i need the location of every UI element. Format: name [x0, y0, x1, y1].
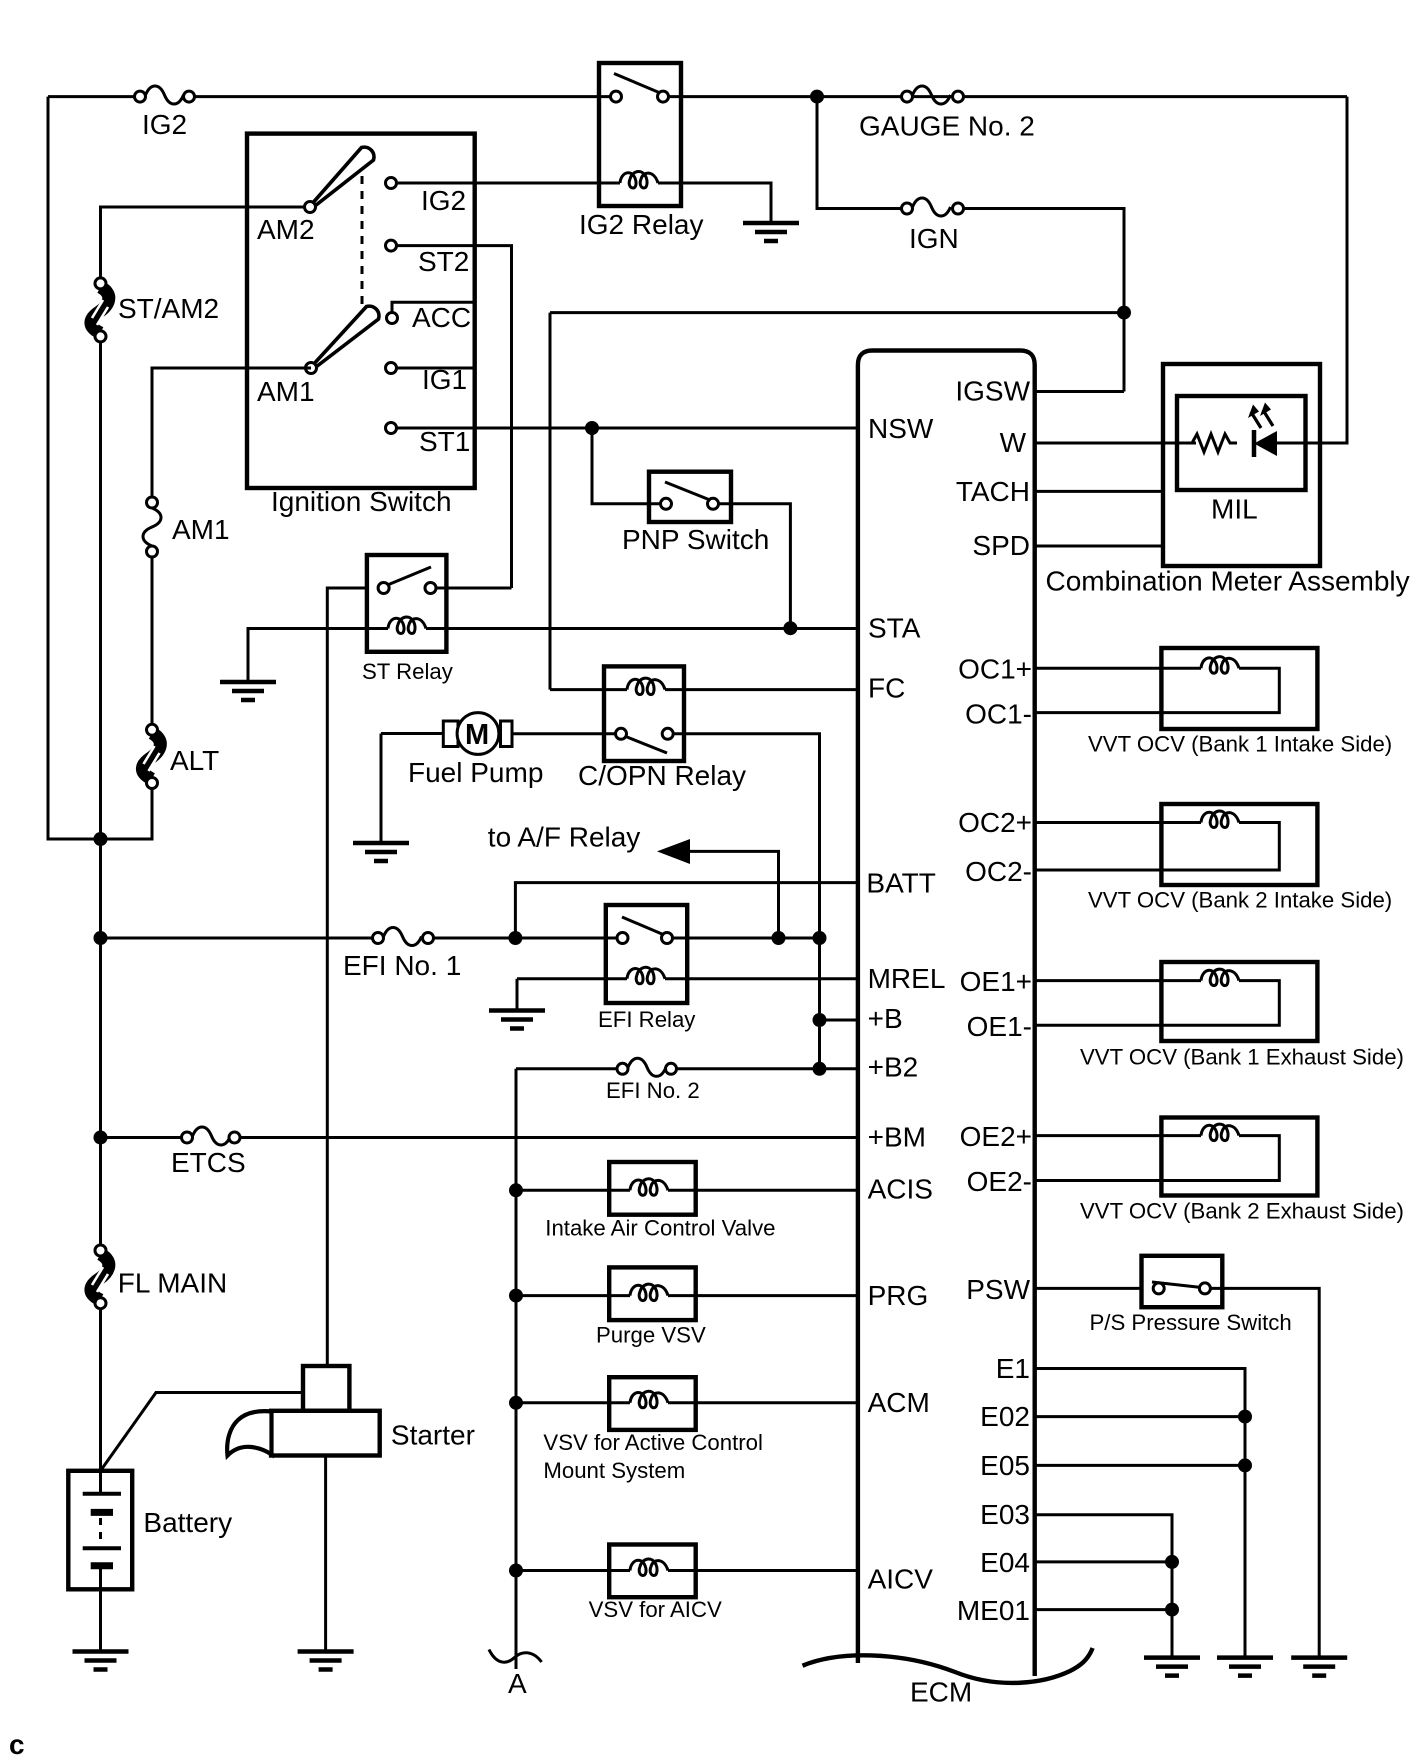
node junction EFI left [94, 931, 108, 945]
wire P/S switch to ground [1210, 1288, 1319, 1657]
fusible link ALT [142, 724, 219, 788]
svg-text:+B: +B [868, 1003, 903, 1034]
svg-text:VSV for AICV: VSV for AICV [589, 1597, 722, 1622]
node junction AICV [509, 1564, 523, 1578]
svg-text:IGSW: IGSW [955, 376, 1030, 407]
node junction ACIS [509, 1183, 523, 1197]
pin PSW [966, 1274, 1141, 1305]
switch PNP contacts [661, 498, 719, 509]
fuse GAUGE No. 2 [859, 86, 1035, 142]
motor fuel pump [381, 713, 543, 788]
relay C/OPN box [604, 666, 684, 761]
valve VSV active control mount [516, 1377, 858, 1483]
node junction +B [813, 1013, 827, 1027]
fuse IGN [902, 198, 964, 254]
label ST Relay [362, 659, 454, 684]
switch PNP blade [665, 482, 715, 502]
switch PNP box [649, 472, 731, 522]
svg-text:ST/AM2: ST/AM2 [118, 293, 219, 324]
node junction gauge branch [810, 90, 824, 104]
node A break symbol [489, 1650, 542, 1700]
pin MREL [868, 963, 946, 994]
label Ignition Switch [271, 486, 452, 517]
svg-text:VVT OCV (Bank 2 Intake Side): VVT OCV (Bank 2 Intake Side) [1088, 887, 1392, 912]
svg-text:Starter: Starter [391, 1419, 475, 1450]
combination meter assembly box [1046, 364, 1410, 597]
valve purge VSV [516, 1267, 858, 1347]
wire fuel pump to ground [380, 734, 383, 844]
svg-text:E05: E05 [980, 1450, 1030, 1481]
relay EFI coil on MREL wire [517, 967, 858, 984]
wire BATT to ECM [515, 883, 858, 938]
svg-text:Combination Meter Assembly: Combination Meter Assembly [1046, 566, 1410, 597]
svg-text:FL MAIN: FL MAIN [118, 1268, 227, 1299]
svg-text:ALT: ALT [170, 745, 219, 776]
svg-text:ST1: ST1 [419, 426, 470, 457]
valve intake air control [516, 1162, 858, 1240]
fuse IG2 [135, 86, 195, 140]
svg-text:OE1-: OE1- [967, 1011, 1032, 1042]
svg-text:AICV: AICV [868, 1564, 934, 1595]
wire AM2 to left vertical [101, 207, 311, 283]
node junction E02 [1238, 1410, 1252, 1424]
relay IG2 switch blade [614, 74, 665, 96]
resistor MIL [1163, 434, 1237, 452]
node junction +B2 [813, 1062, 827, 1076]
pin TACH [956, 476, 1163, 507]
pin STA [868, 613, 921, 644]
VVT OCV bank1 exhaust box [1080, 962, 1404, 1069]
pin E1 [996, 1353, 1245, 1658]
battery [68, 1471, 232, 1590]
ground ST relay [220, 682, 276, 700]
label BATT [866, 868, 935, 899]
wire ST1 junction to PNP switch [592, 428, 660, 504]
svg-text:P/S Pressure Switch: P/S Pressure Switch [1090, 1310, 1292, 1335]
node junction E04 [1165, 1555, 1179, 1569]
svg-text:Intake Air Control Valve: Intake Air Control Valve [545, 1215, 775, 1240]
label C/OPN Relay [578, 760, 746, 791]
node junction +B branch top [813, 931, 827, 945]
svg-text:ACIS: ACIS [868, 1173, 933, 1204]
svg-text:EFI No. 1: EFI No. 1 [343, 950, 461, 981]
wire ALT to junction [101, 788, 153, 839]
svg-text:c: c [9, 1729, 25, 1760]
wire +B2 horizontal [516, 1067, 858, 1070]
svg-text:EFI Relay: EFI Relay [598, 1007, 696, 1032]
pin OC1+ [958, 654, 1161, 685]
wire left mid vertical [99, 342, 102, 1250]
svg-text:Mount System: Mount System [543, 1458, 685, 1483]
svg-text:E1: E1 [996, 1353, 1030, 1384]
wire battery to starter [101, 1393, 304, 1471]
wire ST relay coil to ground [248, 629, 367, 683]
arrowhead A/F [657, 839, 690, 864]
pin AICV [868, 1564, 934, 1595]
ground E1 group [1217, 1658, 1273, 1676]
node junction PRG [509, 1289, 523, 1303]
wire STA to ECM [446, 627, 858, 630]
svg-text:STA: STA [868, 613, 921, 644]
node junction left battery feed [94, 832, 108, 846]
svg-text:PNP Switch: PNP Switch [622, 524, 769, 555]
svg-text:ACC: ACC [412, 302, 471, 333]
wire VSV feed vertical [515, 1069, 518, 1669]
wire FC feed vertical [549, 313, 552, 690]
svg-text:VVT OCV (Bank 1 Intake Side): VVT OCV (Bank 1 Intake Side) [1088, 732, 1392, 757]
svg-text:EFI No. 2: EFI No. 2 [606, 1078, 700, 1103]
svg-text:ACM: ACM [868, 1387, 930, 1418]
label EFI Relay [598, 1007, 696, 1032]
wire MREL to ground [516, 979, 519, 1011]
pin PRG [868, 1280, 929, 1311]
svg-text:IG2: IG2 [421, 185, 466, 216]
svg-text:IG2 Relay: IG2 Relay [579, 209, 704, 240]
svg-text:OE2+: OE2+ [960, 1121, 1032, 1152]
pin W [1000, 427, 1196, 458]
svg-text:to A/F Relay: to A/F Relay [488, 822, 641, 853]
switch lever AM2 [257, 147, 374, 245]
svg-text:TACH: TACH [956, 476, 1030, 507]
node junction E05 [1238, 1458, 1252, 1472]
relay IG2 switch contacts [611, 91, 669, 102]
pin E03 [980, 1499, 1172, 1658]
pin IG1 of ignition switch [386, 363, 475, 396]
wire C/OPN to +B vertical [673, 734, 820, 1069]
svg-text:ME01: ME01 [957, 1595, 1030, 1626]
svg-text:IG1: IG1 [422, 364, 467, 395]
svg-text:OC2-: OC2- [965, 856, 1032, 887]
svg-text:+B2: +B2 [868, 1051, 919, 1082]
svg-text:ST Relay: ST Relay [362, 659, 454, 684]
svg-text:OC1+: OC1+ [958, 654, 1032, 685]
wire AM1 to fuse [152, 368, 311, 497]
fuse AM1 vertical [143, 497, 230, 557]
wire W net to MIL right side [1277, 97, 1347, 443]
svg-text:E04: E04 [980, 1547, 1030, 1578]
svg-text:OC2+: OC2+ [958, 807, 1032, 838]
relay IG2 box [599, 63, 681, 206]
wire starter to ground [324, 1456, 327, 1652]
node junction BATT branch [508, 931, 522, 945]
label to A/F Relay [488, 822, 641, 853]
dashed link between levers [361, 176, 364, 313]
ground starter [298, 1652, 354, 1670]
wire battery to ground [99, 1589, 102, 1651]
pin E05 [980, 1450, 1245, 1481]
ground IG2 relay [743, 223, 799, 241]
svg-text:Purge VSV: Purge VSV [596, 1323, 706, 1348]
svg-text:ECM: ECM [910, 1677, 972, 1708]
svg-text:VSV for Active Control: VSV for Active Control [543, 1430, 763, 1455]
svg-text:Battery: Battery [143, 1507, 232, 1538]
node junction STA [783, 621, 797, 635]
wire fuel pump to C/OPN [512, 732, 615, 735]
svg-text:Ignition Switch: Ignition Switch [271, 486, 452, 517]
LED MIL [1248, 403, 1277, 458]
svg-text:MREL: MREL [868, 963, 946, 994]
svg-text:W: W [1000, 427, 1027, 458]
node junction ETCS [94, 1131, 108, 1145]
wire IGN branch vertical [817, 97, 902, 209]
switch P/S pressure box [1090, 1256, 1292, 1335]
svg-text:BATT: BATT [866, 868, 935, 899]
contact AM2 [305, 202, 316, 213]
relay EFI switch contacts [617, 933, 673, 944]
pin ST1 of ignition switch [386, 423, 858, 458]
svg-text:OC1-: OC1- [965, 698, 1032, 729]
pin ME01 [957, 1595, 1172, 1626]
svg-text:OE1+: OE1+ [960, 966, 1032, 997]
svg-text:M: M [465, 719, 489, 751]
pin ACC of ignition switch [387, 302, 475, 333]
label PNP Switch [622, 524, 769, 555]
pin FC [868, 673, 905, 704]
svg-text:PRG: PRG [868, 1280, 929, 1311]
wire +B to ECM [820, 1019, 858, 1022]
wire FC feed horizontal [550, 311, 1124, 314]
ignition switch box [247, 134, 475, 488]
fuse EFI No. 2 [606, 1058, 700, 1103]
wire ST relay contact to ST2 net [436, 587, 512, 590]
svg-text:NSW: NSW [868, 413, 934, 444]
pin OC2- [965, 856, 1161, 887]
pin OE2- [967, 1166, 1162, 1197]
pin IGSW [955, 376, 1124, 407]
pin +BM [868, 1122, 926, 1153]
svg-text:FC: FC [868, 673, 905, 704]
pin NSW [868, 413, 934, 444]
pin +B2 [868, 1051, 919, 1082]
wire ST relay to starter vertical [327, 588, 367, 1366]
fusible link FL MAIN [91, 1138, 227, 1309]
svg-text:E02: E02 [980, 1401, 1030, 1432]
ground EFI relay [489, 1011, 545, 1029]
svg-text:E03: E03 [980, 1499, 1030, 1530]
relay EFI switch blade [622, 917, 669, 937]
node junction ST1 PNP branch [585, 421, 599, 435]
pin ACM [868, 1387, 930, 1418]
svg-text:A: A [508, 1668, 527, 1699]
svg-text:AM1: AM1 [257, 376, 315, 407]
fusible link ST/AM2 [91, 278, 219, 342]
wire left outer vertical [48, 97, 101, 839]
svg-text:C/OPN Relay: C/OPN Relay [578, 760, 746, 791]
node junction IGN FC [1117, 306, 1131, 320]
wire ETCS +BM horizontal [101, 1136, 858, 1139]
ground battery [73, 1652, 129, 1670]
svg-text:VVT OCV (Bank 2 Exhaust Side): VVT OCV (Bank 2 Exhaust Side) [1080, 1199, 1404, 1224]
pin OE1+ [960, 966, 1162, 997]
pin E02 [980, 1401, 1245, 1432]
svg-text:SPD: SPD [972, 530, 1030, 561]
wire PNP to STA junction [719, 504, 790, 628]
pin IG2 of ignition switch [386, 178, 601, 217]
node junction ME01 [1165, 1603, 1179, 1617]
relay C/OPN switch contacts [616, 728, 674, 739]
svg-text:AM2: AM2 [257, 214, 315, 245]
svg-text:IGN: IGN [909, 223, 959, 254]
wire EFI main horizontal [101, 937, 820, 940]
ground E03 group [1144, 1658, 1200, 1676]
switch lever AM1 [257, 306, 379, 407]
pin SPD [972, 530, 1163, 561]
relay ST coil [367, 617, 447, 634]
pin +B [868, 1003, 903, 1034]
MIL box [1177, 396, 1306, 525]
wire IG2 feed top horizontal [48, 95, 1347, 98]
pin OC1- [965, 698, 1161, 729]
wire fuse AM1 to ALT link [151, 557, 154, 724]
ground fuel pump [353, 843, 409, 861]
wire IGN fuse to IGSW junction [963, 209, 1124, 392]
contact AM1 [306, 363, 317, 374]
pin OE1- [967, 1011, 1162, 1042]
node junction AF branch [772, 931, 786, 945]
valve VSV for AICV [516, 1545, 858, 1623]
pin OE2+ [960, 1121, 1162, 1152]
svg-text:PSW: PSW [966, 1274, 1030, 1305]
relay IG2 coil [599, 171, 681, 188]
relay ST switch blade [385, 567, 431, 586]
label IG2 Relay [579, 209, 704, 240]
svg-text:GAUGE No. 2: GAUGE No. 2 [859, 111, 1035, 142]
fuse ETCS [171, 1127, 246, 1178]
svg-text:OE2-: OE2- [967, 1166, 1032, 1197]
svg-text:ETCS: ETCS [171, 1147, 246, 1178]
wire FL MAIN to battery [99, 1308, 102, 1494]
svg-text:MIL: MIL [1211, 494, 1258, 525]
wire A/F relay branch [687, 851, 779, 938]
relay EFI box [606, 905, 687, 1003]
svg-text:ST2: ST2 [418, 246, 469, 277]
svg-text:+BM: +BM [868, 1122, 926, 1153]
ground P/S switch [1291, 1658, 1347, 1676]
svg-text:IG2: IG2 [142, 109, 187, 140]
svg-text:AM1: AM1 [172, 514, 230, 545]
relay ST box [367, 555, 447, 652]
VVT OCV bank2 intake box [1088, 804, 1392, 912]
VVT OCV bank1 intake box [1088, 648, 1392, 757]
pin ACIS [868, 1173, 933, 1204]
VVT OCV bank2 exhaust box [1080, 1118, 1404, 1224]
starter [227, 1366, 475, 1456]
pin E04 [980, 1547, 1172, 1578]
wire IG2 relay coil to ground [681, 183, 771, 223]
relay C/OPN switch blade [622, 735, 667, 753]
page mark c [9, 1729, 25, 1760]
relay ST switch contacts [378, 583, 436, 594]
fuse EFI No. 1 [343, 928, 461, 982]
pin ST2 of ignition switch [386, 240, 512, 588]
svg-text:VVT OCV (Bank 1 Exhaust Side): VVT OCV (Bank 1 Exhaust Side) [1080, 1044, 1404, 1069]
node junction ACM [509, 1396, 523, 1410]
relay C/OPN coil on FC wire [550, 678, 858, 695]
svg-text:Fuel Pump: Fuel Pump [408, 757, 543, 788]
pin OC2+ [958, 807, 1161, 838]
ECM box [803, 351, 1093, 1708]
